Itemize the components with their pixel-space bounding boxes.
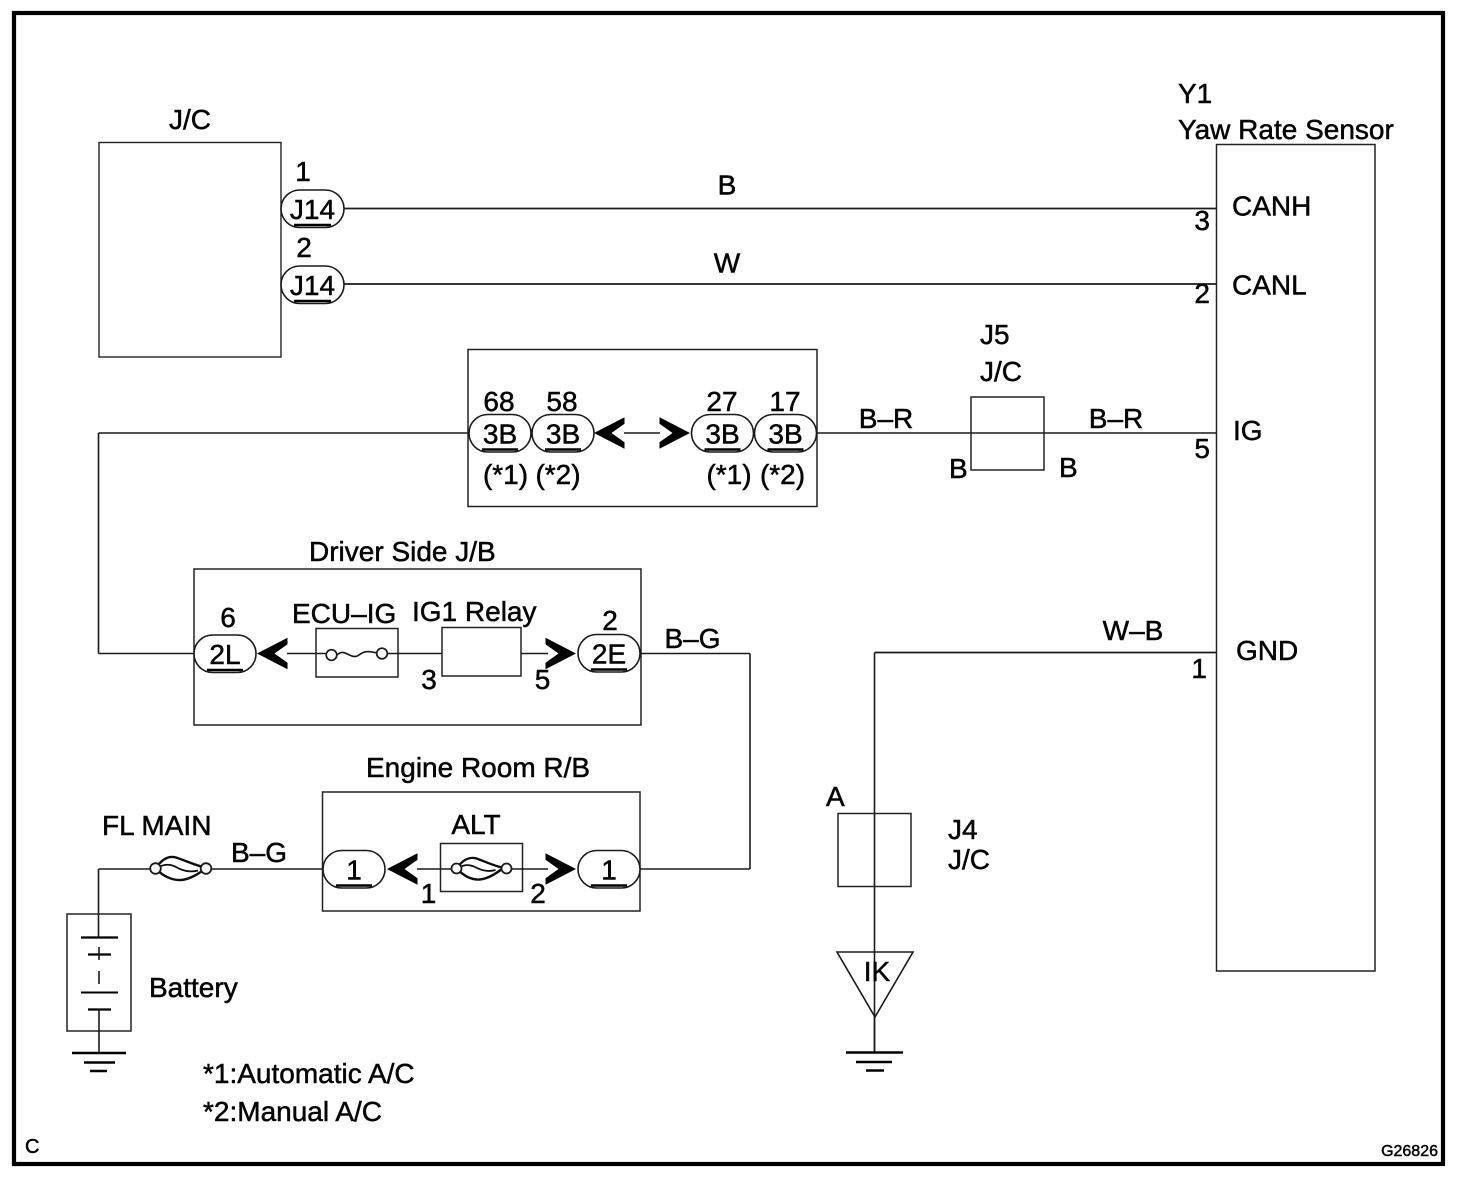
- arrow chevron left at 2L: [257, 638, 288, 670]
- connector 1 (left): [323, 851, 385, 889]
- wire vertical from IG line down to driver J/B: [98, 433, 100, 654]
- svg-text:1: 1: [1191, 653, 1207, 684]
- svg-text:J14: J14: [290, 270, 335, 301]
- fusible link ALT element: [452, 858, 512, 880]
- relay IG1 box: [442, 628, 521, 677]
- svg-text:J4: J4: [948, 814, 978, 845]
- svg-text:*1:Automatic A/C: *1:Automatic A/C: [203, 1058, 415, 1089]
- wire 2E to corner: [640, 653, 750, 655]
- svg-text:W: W: [714, 248, 741, 279]
- wire IK to ground: [874, 1017, 876, 1052]
- wire W (CANL): [344, 283, 1216, 285]
- svg-text:3B: 3B: [483, 419, 517, 450]
- wire B (CANH): [344, 208, 1216, 210]
- svg-text:GND: GND: [1236, 635, 1298, 666]
- svg-text:J/C: J/C: [980, 356, 1022, 387]
- wire 2L to fuse: [287, 653, 331, 655]
- arrow chevron left at ALT: [387, 853, 418, 885]
- svg-text:2: 2: [602, 605, 618, 636]
- svg-text:ECU–IG: ECU–IG: [292, 598, 396, 629]
- svg-text:B: B: [1059, 452, 1078, 483]
- svg-text:6: 6: [220, 602, 236, 633]
- connector group box (3B connectors): [468, 350, 817, 507]
- svg-text:Y1: Y1: [1178, 78, 1212, 109]
- svg-text:3B: 3B: [768, 419, 802, 450]
- svg-text:IG1 Relay: IG1 Relay: [412, 596, 537, 627]
- junction connector J4 box: [838, 814, 911, 887]
- svg-text:G26826: G26826: [1381, 1143, 1438, 1160]
- wire ALT box to chevron: [511, 868, 548, 870]
- svg-text:J/C: J/C: [169, 104, 211, 135]
- connector 3B (58): [532, 415, 594, 453]
- svg-text:3B: 3B: [546, 419, 580, 450]
- svg-text:(*2): (*2): [760, 459, 805, 490]
- svg-text:58: 58: [546, 386, 577, 417]
- wire vertical to J4: [874, 653, 876, 1053]
- svg-text:Driver Side J/B: Driver Side J/B: [309, 536, 496, 567]
- svg-text:3: 3: [421, 664, 437, 695]
- svg-text:2E: 2E: [592, 639, 626, 670]
- svg-text:B–G: B–G: [231, 837, 287, 868]
- svg-text:1: 1: [421, 878, 437, 909]
- svg-text:(*2): (*2): [535, 459, 580, 490]
- wire battery to FL MAIN: [99, 868, 152, 870]
- ground under battery: [72, 1053, 126, 1071]
- battery plates: [81, 938, 118, 1053]
- wire engine box to corner: [640, 868, 750, 870]
- svg-text:3B: 3B: [705, 419, 739, 450]
- connector 3B (68): [469, 415, 531, 453]
- wire inside 3B box: [468, 432, 470, 434]
- svg-text:Battery: Battery: [149, 972, 238, 1003]
- svg-text:A: A: [826, 781, 845, 812]
- svg-text:27: 27: [706, 386, 737, 417]
- battery box: [67, 914, 131, 1031]
- svg-text:5: 5: [1194, 433, 1210, 464]
- arrow chevron right at ALT: [546, 853, 577, 885]
- svg-text:J5: J5: [980, 319, 1010, 350]
- arrow chevron left (male half): [594, 417, 625, 449]
- fuse ECU-IG box: [316, 629, 398, 678]
- svg-text:J/C: J/C: [948, 844, 990, 875]
- svg-text:17: 17: [769, 386, 800, 417]
- svg-text:Engine Room R/B: Engine Room R/B: [366, 752, 590, 783]
- connector J14 pin 1: [281, 156, 344, 228]
- svg-text:FL MAIN: FL MAIN: [102, 810, 211, 841]
- wire GND horizontal: [875, 652, 1217, 654]
- svg-text:5: 5: [535, 664, 551, 695]
- svg-text:2: 2: [1194, 278, 1210, 309]
- wire vertical corner down: [749, 654, 751, 870]
- svg-text:(*1): (*1): [483, 459, 528, 490]
- connector 2E: [578, 635, 640, 673]
- svg-text:*2:Manual A/C: *2:Manual A/C: [203, 1096, 382, 1127]
- fusible link ALT box: [441, 844, 523, 892]
- wire down to battery: [98, 869, 100, 937]
- svg-text:1: 1: [295, 156, 311, 187]
- wire fuse to relay: [387, 653, 442, 655]
- svg-text:2: 2: [530, 878, 546, 909]
- connector 1 (right): [578, 851, 640, 889]
- svg-text:B–R: B–R: [1089, 403, 1143, 434]
- wire IG horizontal left segment: [99, 432, 469, 434]
- ground under IK: [846, 1053, 903, 1071]
- svg-text:2L: 2L: [209, 639, 240, 670]
- svg-text:B–G: B–G: [664, 623, 720, 654]
- wire relay to chevron: [521, 653, 548, 655]
- arrow chevron right at 2E: [546, 638, 577, 670]
- connector 2L: [194, 635, 256, 673]
- wire chevron to ALT box: [417, 868, 452, 870]
- svg-text:2: 2: [296, 232, 312, 263]
- svg-text:68: 68: [483, 386, 514, 417]
- svg-text:ALT: ALT: [451, 809, 500, 840]
- svg-text:B: B: [949, 453, 968, 484]
- svg-text:(*1): (*1): [706, 459, 751, 490]
- svg-text:C: C: [25, 1136, 39, 1158]
- junction connector J/C box: [99, 143, 281, 358]
- svg-text:1: 1: [601, 855, 617, 886]
- svg-text:IG: IG: [1233, 415, 1263, 446]
- svg-text:1: 1: [346, 855, 362, 886]
- svg-text:IK: IK: [864, 956, 891, 987]
- svg-text:J14: J14: [290, 194, 335, 225]
- connector J14 pin 2: [281, 232, 344, 304]
- shield triangle IK: [837, 952, 913, 1017]
- Yaw rate sensor Y1 box: [1217, 145, 1376, 972]
- fuse ECU-IG element: [326, 648, 387, 660]
- wire horizontal into 2L: [99, 653, 195, 655]
- svg-text:CANH: CANH: [1232, 191, 1311, 222]
- connector 3B (17): [755, 415, 817, 453]
- connector 3B (27): [692, 415, 754, 453]
- Engine Room R/B box: [323, 792, 641, 911]
- svg-text:Yaw Rate Sensor: Yaw Rate Sensor: [1178, 114, 1394, 145]
- fusible link FL MAIN element: [150, 857, 211, 880]
- wire IG right segment to sensor: [817, 432, 1216, 434]
- wire FL MAIN to engine box: [211, 868, 323, 870]
- svg-text:B–R: B–R: [859, 403, 913, 434]
- svg-text:B: B: [718, 170, 737, 201]
- svg-text:CANL: CANL: [1232, 270, 1307, 301]
- svg-text:W–B: W–B: [1103, 615, 1164, 646]
- Driver Side J/B box: [194, 569, 641, 725]
- svg-text:3: 3: [1194, 205, 1210, 236]
- junction connector J5 box: [971, 397, 1044, 470]
- arrow chevron right (female half): [660, 417, 691, 449]
